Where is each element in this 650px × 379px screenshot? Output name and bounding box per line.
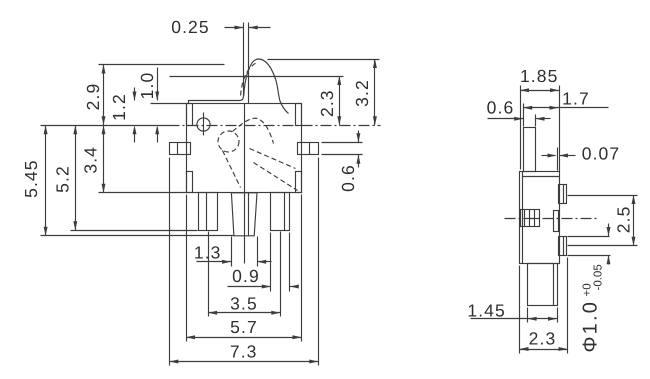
svg-text:1.0: 1.0 [137, 72, 157, 100]
svg-text:2.5: 2.5 [614, 206, 634, 234]
svg-text:0.9: 0.9 [232, 266, 260, 286]
svg-text:2.9: 2.9 [83, 83, 103, 111]
svg-text:Φ1.0: Φ1.0 [580, 300, 602, 353]
svg-text:0.25: 0.25 [171, 17, 209, 37]
svg-text:1.85: 1.85 [520, 66, 558, 86]
svg-text:0.07: 0.07 [582, 144, 620, 164]
svg-text:2.3: 2.3 [317, 89, 337, 117]
svg-text:5.2: 5.2 [53, 165, 73, 193]
svg-text:1.45: 1.45 [467, 301, 505, 321]
svg-text:5.45: 5.45 [21, 159, 41, 197]
svg-text:-0.05: -0.05 [593, 264, 605, 290]
svg-text:3.5: 3.5 [230, 294, 258, 314]
svg-text:2.3: 2.3 [529, 329, 557, 349]
svg-text:5.7: 5.7 [230, 317, 258, 337]
svg-text:3.4: 3.4 [80, 146, 100, 174]
svg-text:0.6: 0.6 [487, 98, 515, 118]
svg-text:1.7: 1.7 [562, 89, 590, 109]
svg-text:1.3: 1.3 [194, 243, 222, 263]
svg-text:7.3: 7.3 [230, 341, 258, 361]
svg-text:1.2: 1.2 [109, 93, 129, 121]
svg-text:3.2: 3.2 [352, 79, 372, 107]
svg-text:0.6: 0.6 [338, 164, 358, 192]
